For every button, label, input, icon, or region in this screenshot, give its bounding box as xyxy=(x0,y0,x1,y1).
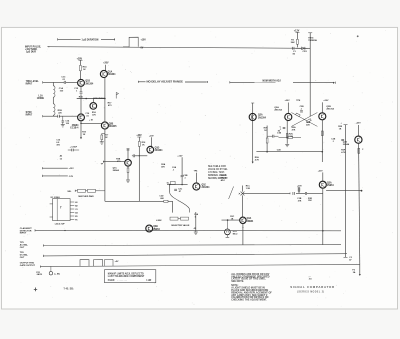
label below K1 xyxy=(55,223,66,226)
label DS1 NE2 xyxy=(233,231,238,235)
svg-text:Q1D: Q1D xyxy=(155,148,160,150)
label A2 terminals xyxy=(60,155,63,161)
svg-text:2N964: 2N964 xyxy=(343,143,350,146)
label C2A .1 xyxy=(172,166,177,171)
svg-text:Q3A: Q3A xyxy=(327,181,332,184)
label R17 470 xyxy=(108,103,113,107)
wire Q11 collector line xyxy=(326,190,362,192)
label R3B xyxy=(194,227,197,230)
wire Q1-Q2 emitter chain xyxy=(80,86,82,114)
relay K1 pins left xyxy=(50,204,53,217)
svg-text:(SERIES MODEL 2): (SERIES MODEL 2) xyxy=(297,291,324,293)
capacitor C13 .01 xyxy=(61,77,66,84)
svg-text:CHECKING THE ADJUSTMENT.: CHECKING THE ADJUSTMENT. xyxy=(231,298,267,301)
transistor Q12 xyxy=(343,125,362,146)
svg-text:Q3B: Q3B xyxy=(153,226,158,228)
wire base feed xyxy=(77,98,105,100)
wire Q16 emitter to ground xyxy=(194,212,198,234)
label 1us duration xyxy=(82,38,99,41)
label C bottom tick xyxy=(349,257,352,261)
svg-text:2N1304: 2N1304 xyxy=(274,109,282,112)
svg-text:INPUT: INPUT xyxy=(26,84,33,86)
svg-text:2N1305: 2N1305 xyxy=(109,126,118,128)
wire timing vertical xyxy=(344,125,348,258)
transistor Q7 xyxy=(147,137,163,153)
svg-text:22K: 22K xyxy=(306,124,310,126)
transistor Q1 xyxy=(78,79,94,86)
resistor R2F 4.7K xyxy=(341,148,364,154)
svg-text:GATE OUTPUT: GATE OUTPUT xyxy=(20,264,36,267)
label output trig gate xyxy=(20,263,36,267)
wire Q6 base xyxy=(101,161,125,166)
svg-text:INPUT: INPUT xyxy=(20,233,27,235)
label plus tick xyxy=(341,123,343,125)
wire row2 ac xyxy=(43,244,341,246)
title signal comparator xyxy=(290,285,335,289)
svg-text:+20V: +20V xyxy=(318,171,323,173)
label Q2B 2N1304 xyxy=(326,106,334,111)
node junction R18 xyxy=(139,155,140,156)
dimension line 1us duration xyxy=(58,38,115,40)
svg-text:2N1304: 2N1304 xyxy=(108,73,117,76)
svg-text:NO DELAY ADJUST RANGE: NO DELAY ADJUST RANGE xyxy=(147,81,184,84)
svg-text:ADJ: ADJ xyxy=(221,179,225,182)
relay K1 box xyxy=(53,199,71,221)
svg-text:OUT: OUT xyxy=(20,247,25,249)
svg-text:+20V: +20V xyxy=(285,100,291,102)
svg-text:+5V: +5V xyxy=(115,261,119,263)
svg-text:2N964: 2N964 xyxy=(153,228,160,231)
capacitor C1 82 xyxy=(293,47,297,55)
registration dot top right xyxy=(357,35,359,37)
svg-text:T-45. SB:: T-45. SB: xyxy=(63,287,74,290)
wire sync input xyxy=(43,115,78,117)
svg-text:4.7K: 4.7K xyxy=(255,158,260,161)
svg-text:C2D: C2D xyxy=(277,150,282,152)
svg-text:E5: E5 xyxy=(75,216,77,218)
wire cross coupling 2 xyxy=(291,113,317,127)
node +20V middle xyxy=(136,135,142,137)
capacitor C2B xyxy=(181,157,188,184)
wire row4 output xyxy=(40,264,359,267)
svg-text:SELECTED VALUE: SELECTED VALUE xyxy=(171,224,190,227)
label TP1 TRIG THRESH xyxy=(308,38,317,42)
transistor Q11 xyxy=(319,172,334,188)
capacitor C2C 47 xyxy=(174,189,183,193)
wire base resistor row xyxy=(279,137,302,139)
label R15 xyxy=(79,97,84,99)
svg-text:2N1304: 2N1304 xyxy=(202,186,211,189)
arrow Q8 down xyxy=(252,162,254,164)
transistor Q16 xyxy=(193,183,210,190)
capacitor C2E .1 xyxy=(331,139,344,143)
resistor chain selected xyxy=(170,217,189,220)
svg-text:VALUE OF RT SEL: VALUE OF RT SEL xyxy=(208,168,228,171)
label this sb xyxy=(63,287,74,290)
label trig level input xyxy=(26,81,40,86)
node +20V Q9 xyxy=(285,100,302,102)
output pulse dashed xyxy=(105,259,120,266)
svg-text:SIGNAL COMPARATOR: SIGNAL COMPARATOR xyxy=(290,285,335,289)
diode CR1 xyxy=(296,47,311,53)
svg-text:+12V: +12V xyxy=(69,168,75,170)
node input pulse label xyxy=(25,46,41,53)
label R2A 47K right xyxy=(292,126,297,131)
svg-text:1µS DUR: 1µS DUR xyxy=(26,51,36,53)
transistor Q4 xyxy=(100,65,116,78)
relay K1 pins right xyxy=(70,201,78,222)
label Q2A 2N1304 xyxy=(274,106,282,112)
svg-text:JACK: JACK xyxy=(36,273,42,276)
wire Q5 emitter down xyxy=(104,129,106,202)
transistor Q9 xyxy=(285,103,292,121)
wire collector tie line xyxy=(256,151,323,153)
svg-text:+20V: +20V xyxy=(323,100,329,102)
svg-text:2N964: 2N964 xyxy=(247,220,254,223)
test point flag TP xyxy=(116,92,118,98)
node +20V preamp xyxy=(77,58,83,60)
svg-text:56K: 56K xyxy=(291,42,295,44)
label no delay adj xyxy=(147,81,184,84)
svg-text:(+ IN): (+ IN) xyxy=(54,273,60,275)
registration plus mark xyxy=(34,288,37,292)
svg-text:4.99K: 4.99K xyxy=(156,219,162,222)
wire pot wiper diagonal xyxy=(229,186,234,199)
svg-text:K1 2.5MH: K1 2.5MH xyxy=(51,197,61,199)
inductor L1A winding upper xyxy=(53,82,55,103)
capacitor C15 1 xyxy=(74,88,82,93)
label note heading xyxy=(231,285,238,287)
resistor R14 1K xyxy=(80,60,88,79)
svg-text:B1B 2N964: B1B 2N964 xyxy=(93,97,105,100)
wire cross coupling 1 xyxy=(291,113,317,127)
capacitor C16 on sync line xyxy=(58,110,63,118)
wire output arrow end xyxy=(359,264,361,276)
resistor R3D 15K xyxy=(297,187,302,202)
svg-text:SEE NOTE.: SEE NOTE. xyxy=(231,280,244,283)
svg-text:EC1B-4: EC1B-4 xyxy=(70,126,79,129)
test point TP4 xyxy=(194,170,199,184)
wire row1 detector xyxy=(35,229,341,231)
wire Q2 collector to Q5 base xyxy=(80,123,101,125)
svg-text:Q3A: Q3A xyxy=(247,217,252,220)
wire trigger input bus xyxy=(47,46,307,48)
svg-text:+20V: +20V xyxy=(103,63,109,65)
resistor R1 56K xyxy=(291,32,299,47)
svg-text:SEE TABLE FOR: SEE TABLE FOR xyxy=(208,165,226,168)
svg-text:+10V: +10V xyxy=(141,40,147,42)
svg-text:Q2B: Q2B xyxy=(109,123,114,125)
node +12V xyxy=(294,30,300,32)
label L1A xyxy=(37,94,45,100)
label 0V xyxy=(141,48,144,50)
wire Q9 emitter xyxy=(285,120,289,147)
svg-text:+12V: +12V xyxy=(177,155,183,157)
label R2C 10K xyxy=(289,134,294,138)
inductor L1A winding lower xyxy=(53,104,55,116)
label P/O jack xyxy=(36,266,60,276)
subtitle series xyxy=(297,291,324,293)
transistor Q3 xyxy=(90,103,97,117)
svg-text:2N964: 2N964 xyxy=(327,184,334,187)
label R2E xyxy=(338,126,343,130)
label C3A 1 xyxy=(194,213,199,218)
transistor Q10 xyxy=(319,102,326,120)
note box text xyxy=(108,273,152,283)
label K1 relay xyxy=(51,197,61,199)
capacitor C1B 82 xyxy=(267,130,281,137)
svg-text:NOM WIDTH ADJ: NOM WIDTH ADJ xyxy=(263,79,282,82)
svg-text:27K: 27K xyxy=(298,200,302,202)
node +20V Q12 xyxy=(356,122,362,124)
svg-text:AT FINAL TEST.: AT FINAL TEST. xyxy=(208,171,225,174)
svg-text:15K: 15K xyxy=(308,200,312,202)
label R1C 1.5K xyxy=(246,185,251,189)
resistor R19 to ground xyxy=(80,121,87,139)
svg-text:. . . . . . . .: . . . . . . . . xyxy=(118,280,128,282)
svg-text:LAST TOLERANCE COMPONENT: LAST TOLERANCE COMPONENT xyxy=(108,275,145,278)
label matched pair xyxy=(67,191,94,198)
capacitor C2B .1 right xyxy=(300,106,305,112)
label TP6 DC row xyxy=(20,252,29,259)
capacitor C2C left xyxy=(280,127,286,131)
notes paragraph diodes xyxy=(231,273,270,283)
wire delay node xyxy=(167,184,188,185)
label P2 pin xyxy=(352,270,356,274)
svg-text:+ 6.8UF: + 6.8UF xyxy=(70,147,78,149)
node junction dot xyxy=(85,98,87,100)
capacitor C14 100 xyxy=(61,116,70,127)
svg-text:2N1304: 2N1304 xyxy=(155,149,164,152)
neon lamp DS1 xyxy=(225,220,231,237)
label nom width xyxy=(263,79,282,82)
svg-text:+20V: +20V xyxy=(149,135,154,137)
svg-text:Q1A: Q1A xyxy=(108,71,113,74)
input pulse waveform xyxy=(123,37,138,47)
svg-text:Q1E: Q1E xyxy=(202,184,207,186)
label R3C 1K xyxy=(230,216,235,220)
svg-text:+ 1K: + 1K xyxy=(89,120,94,122)
label C2D 680 xyxy=(159,196,164,200)
resistor R1F xyxy=(264,126,269,152)
label sync input xyxy=(26,112,33,117)
svg-text:B2: B2 xyxy=(75,205,77,207)
svg-text:F6: F6 xyxy=(75,219,77,221)
wire bottom feed xyxy=(105,200,173,212)
svg-text:2N1304: 2N1304 xyxy=(326,108,334,111)
label class detector input xyxy=(20,227,33,235)
label +10V xyxy=(141,40,147,42)
svg-text:47K: 47K xyxy=(292,129,296,132)
label R2A 47K xyxy=(161,163,166,168)
dimension line no delay adj xyxy=(138,81,208,83)
wire Q3 base xyxy=(92,99,94,103)
label LM mark xyxy=(309,277,312,281)
label 4.99K selected xyxy=(156,219,190,227)
wire Q12 emitter long xyxy=(359,143,360,264)
dimension line nom width xyxy=(230,81,336,84)
node +20V Q10 xyxy=(323,100,329,102)
svg-text:Q2A: Q2A xyxy=(258,114,263,117)
svg-text:+20V: +20V xyxy=(297,186,302,188)
label multi smudge xyxy=(221,175,229,182)
svg-text:100MH: 100MH xyxy=(37,98,45,100)
capacitor C19 xyxy=(132,154,147,157)
svg-text:MATCHED PAIR: MATCHED PAIR xyxy=(78,195,94,198)
svg-text:-12V: -12V xyxy=(69,176,74,178)
svg-text:2N964: 2N964 xyxy=(113,169,120,172)
node +20V Q7 xyxy=(149,135,154,137)
label C2D mid xyxy=(277,150,282,152)
wire Q10 emitter xyxy=(321,120,323,163)
wire Q8 collector bus xyxy=(251,103,254,162)
transistor Q6 xyxy=(113,149,132,172)
transistor Q14 xyxy=(240,217,254,223)
wire Q14 emitter xyxy=(242,223,243,244)
transistor Q13 xyxy=(146,225,161,232)
wire main collector bus xyxy=(104,77,106,122)
wire Q11 base feed xyxy=(296,193,323,202)
wire trig input xyxy=(43,81,78,83)
note box border xyxy=(105,270,156,283)
label +12V mid xyxy=(177,155,183,157)
svg-text:FILED: FILED xyxy=(108,280,115,282)
node +20V Q4 xyxy=(103,63,109,65)
label TP5 AC row xyxy=(20,242,29,249)
wire supply stub -12V xyxy=(43,175,74,178)
svg-text:L3A 4.7UF: L3A 4.7UF xyxy=(55,223,66,226)
svg-text:1K: 1K xyxy=(83,69,86,71)
svg-text:461: 461 xyxy=(309,278,312,281)
wire Q6 emitter xyxy=(126,166,130,183)
svg-text:OUT: OUT xyxy=(20,257,25,259)
wire Q11 emitter xyxy=(322,188,324,245)
svg-text:1 µS DURATION: 1 µS DURATION xyxy=(82,38,99,41)
svg-text:1 HR: 1 HR xyxy=(146,280,151,282)
svg-text:2N1304: 2N1304 xyxy=(258,116,267,119)
notes paragraph 2 xyxy=(231,287,272,302)
svg-text:47K: 47K xyxy=(161,165,165,168)
svg-text:C3: C3 xyxy=(75,209,77,211)
resistor R18 1K xyxy=(138,137,146,201)
wire supply stub +12V xyxy=(43,167,75,170)
note paragraph mid xyxy=(208,165,228,180)
resistor matched pair R20 R21 xyxy=(75,189,105,192)
node +20V Q11 base xyxy=(297,186,302,188)
capacitor C3C xyxy=(293,192,307,195)
svg-text:+20V: +20V xyxy=(356,122,362,124)
transistor Q2 xyxy=(70,113,93,129)
wire Q14 base line xyxy=(222,219,240,221)
node +20V above Q11 xyxy=(318,171,323,173)
wire S-curve xyxy=(170,185,190,213)
svg-text:THRESH: THRESH xyxy=(308,40,317,42)
transistor Q8 xyxy=(249,113,266,120)
label R2B 22K xyxy=(306,122,311,126)
node junction main bus xyxy=(104,98,106,100)
wire row3 dc xyxy=(43,254,347,257)
wire gate feed line xyxy=(239,193,290,195)
output pulse waveform xyxy=(80,260,103,267)
label C1A 100 xyxy=(59,87,64,92)
svg-text:A1: A1 xyxy=(75,201,77,204)
wire trig threshold vertical xyxy=(308,33,312,117)
label R3A 4.7K xyxy=(255,156,260,161)
delay line DL1 box xyxy=(167,181,175,184)
resistor R17A to ground xyxy=(100,133,109,144)
capacitor C17 6.8uF xyxy=(68,147,79,152)
transistor Q5 xyxy=(101,122,117,129)
svg-text:1.5K: 1.5K xyxy=(246,188,251,190)
svg-text:INPUT: INPUT xyxy=(26,115,33,117)
diode CR3 cross xyxy=(241,186,245,218)
svg-text:C1B: C1B xyxy=(277,133,282,135)
label C15 cluster xyxy=(56,140,61,147)
svg-text:2N1304: 2N1304 xyxy=(85,82,94,85)
label B1B 2N964 xyxy=(93,97,105,100)
